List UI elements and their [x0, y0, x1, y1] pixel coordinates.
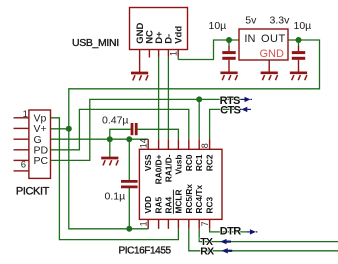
svg-text:CTS: CTS	[220, 104, 240, 116]
svg-text:RC0: RC0	[184, 154, 194, 171]
wire 5v: USB Vdd to regulator IN	[178, 40, 239, 60]
svg-text:RA1/D-: RA1/D-	[163, 154, 173, 182]
wire left 10u cap top stem	[228, 40, 230, 47]
junction ground / 0.47u	[107, 136, 113, 142]
svg-text:GND: GND	[260, 48, 285, 60]
label RX with arrow	[200, 245, 232, 257]
svg-text:10µ: 10µ	[209, 20, 227, 32]
wire 0.47u right plate to Vusb pin	[138, 129, 179, 139]
svg-text:3.3v: 3.3v	[270, 14, 291, 26]
IC PIC16F1455	[139, 139, 222, 229]
wire DTR: PIC RC3 down and right	[210, 229, 247, 232]
wire ground stem below G line	[109, 139, 111, 157]
svg-text:MCLR: MCLR	[173, 190, 183, 214]
svg-text:7: 7	[200, 221, 210, 226]
svg-text:6: 6	[21, 160, 26, 171]
voltage regulator	[239, 29, 288, 72]
svg-text:RA4: RA4	[163, 197, 173, 214]
svg-text:10µ: 10µ	[294, 20, 312, 32]
ground (0.47u / G net)	[101, 158, 118, 165]
svg-text:1: 1	[23, 109, 28, 120]
ground (C2)	[290, 73, 307, 80]
svg-text:RC1: RC1	[194, 154, 204, 171]
ground (regulator)	[261, 73, 278, 80]
ground (C1)	[220, 73, 237, 80]
connector PICKIT	[14, 110, 51, 178]
svg-text:1: 1	[138, 221, 148, 226]
capacitor C2 10u (right)	[292, 53, 305, 73]
wire V+ pin to 3.3v junction	[51, 128, 69, 130]
svg-text:OUT: OUT	[261, 33, 286, 45]
svg-text:PIC16F1455: PIC16F1455	[119, 246, 172, 257]
wire right 10u cap top stem	[298, 40, 300, 47]
svg-text:0.1µ: 0.1µ	[105, 191, 126, 203]
wire D- column USB to PIC RA1	[167, 57, 169, 140]
svg-text:8: 8	[200, 143, 210, 148]
junction RTS / RC1	[196, 96, 202, 102]
svg-text:PC: PC	[34, 155, 49, 167]
svg-text:IN: IN	[244, 33, 255, 45]
wire PD net: PICKIT PD up and across, down to PIC RC0	[51, 109, 189, 149]
ground (USB GND)	[131, 60, 148, 81]
wire GND net: PICKIT G to PIC VSS	[51, 138, 149, 140]
junction 5v / C1	[226, 37, 232, 43]
capacitor C1 10u (left)	[222, 53, 235, 73]
label CTS with arrow	[220, 104, 251, 116]
wire 3.3v down to VDD line and across to PIC VDD pin	[69, 129, 148, 229]
wire 0.1u top stem	[128, 139, 130, 180]
svg-text:RA0/D+: RA0/D+	[154, 154, 164, 184]
connector USB_MINI	[130, 8, 188, 60]
capacitor C4 0.1u	[121, 181, 138, 187]
wire USB Vdd pin drop	[177, 57, 179, 60]
svg-text:RC3: RC3	[205, 197, 215, 214]
wire D+ column USB to PIC RA0	[158, 57, 160, 140]
label DTR with arrow	[220, 226, 258, 238]
label TX with arrow	[200, 236, 231, 248]
wire RTS net: PICKIT PC up and across to arrow	[51, 99, 241, 160]
wire RTS drop to PIC RC1	[198, 99, 200, 139]
wire RX: PIC RC5 down and right to edge	[189, 229, 338, 251]
junction V+ / 3.3v	[66, 126, 72, 132]
wire 0.47u left plate to ground junction	[110, 129, 131, 139]
svg-text:RA5: RA5	[154, 197, 164, 214]
wire MCLR net: PIC MCLR down, across, up to PICKIT Vp	[51, 118, 179, 240]
svg-text:Vusb: Vusb	[173, 155, 183, 175]
svg-text:14: 14	[138, 138, 148, 148]
svg-text:DTR: DTR	[220, 226, 241, 238]
capacitor C3 0.47u	[132, 123, 136, 135]
svg-text:RX: RX	[200, 245, 214, 257]
svg-text:PICKIT: PICKIT	[16, 186, 50, 198]
wire CTS net: PIC RC2 up and right to arrow	[210, 109, 242, 139]
wire 0.1u bottom stem to VDD line	[128, 188, 130, 229]
svg-text:RC2: RC2	[205, 154, 215, 171]
junction 3.3v / C2	[296, 37, 302, 43]
svg-text:VSS: VSS	[143, 154, 153, 171]
svg-text:RC4/Tx: RC4/Tx	[194, 185, 204, 214]
svg-text:5v: 5v	[245, 14, 257, 26]
label RTS with arrow	[220, 95, 252, 107]
svg-text:VDD: VDD	[143, 196, 153, 214]
junction VDD line / 0.1u	[126, 226, 132, 232]
svg-text:USB_MINI: USB_MINI	[72, 37, 119, 49]
wire TX: PIC RC4 down and right to edge	[199, 229, 338, 242]
svg-text:Vdd: Vdd	[174, 26, 185, 44]
svg-text:RC5/Rx: RC5/Rx	[184, 184, 194, 214]
svg-text:1: 1	[169, 51, 179, 56]
wire 3.3v rail: regulator OUT right, down right edge, across at y89, down to V+	[69, 40, 320, 129]
svg-text:0.47µ: 0.47µ	[102, 115, 129, 127]
junction G line / 0.1u	[126, 136, 132, 142]
